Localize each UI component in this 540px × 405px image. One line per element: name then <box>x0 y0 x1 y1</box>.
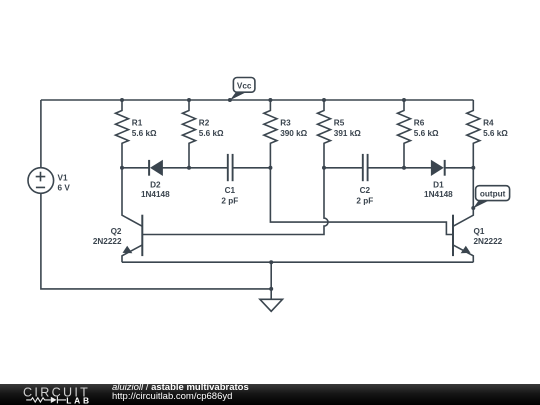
label Q2 2N2222 <box>93 227 122 246</box>
junction node R2 bottom <box>187 166 191 170</box>
label C1 2 pF <box>221 186 238 205</box>
wire R2 node to C1 left plate <box>189 167 228 169</box>
resistor R1 <box>116 100 129 168</box>
svg-text:output: output <box>480 189 506 198</box>
svg-text:R4: R4 <box>483 118 494 127</box>
svg-text:R2: R2 <box>199 118 210 127</box>
svg-text:C2: C2 <box>360 186 371 195</box>
svg-text:R1: R1 <box>132 118 143 127</box>
label R2 5.6 kOhm <box>199 118 224 137</box>
junction node R6 top <box>402 98 406 102</box>
footer credit text <box>112 384 249 402</box>
junction node R1 bottom / D2 / Q2 collector <box>120 166 124 170</box>
svg-text:5.6 kΩ: 5.6 kΩ <box>132 129 157 138</box>
wire R5 node to C2 left plate <box>324 167 363 169</box>
net flag Vcc <box>228 78 255 103</box>
CircuitLab logo <box>0 384 100 405</box>
svg-text:5.6 kΩ: 5.6 kΩ <box>199 129 224 138</box>
wire V1 bottom lead to ground node <box>41 193 271 289</box>
resistor R4 <box>467 100 480 168</box>
label R1 5.6 kOhm <box>132 118 157 137</box>
label R3 390 kOhm <box>280 118 307 137</box>
junction node R4 bottom / D1 / Q1 collector <box>471 166 475 170</box>
svg-text:6 V: 6 V <box>58 184 71 193</box>
svg-text:2N2222: 2N2222 <box>474 237 503 246</box>
svg-text:Q1: Q1 <box>474 227 485 236</box>
diode D2 <box>149 160 162 176</box>
wire R5 node down with hop over crossing then across to Q2 base <box>142 168 328 235</box>
svg-text:Q2: Q2 <box>111 227 122 236</box>
transistor Q1 <box>453 168 473 262</box>
net flag output <box>471 186 509 210</box>
resistor R2 <box>183 100 196 168</box>
junction node V1 return to ground <box>269 287 273 291</box>
wire emitter rail <box>122 261 473 263</box>
junction node R2 top <box>187 98 191 102</box>
label R4 5.6 kOhm <box>483 118 508 137</box>
svg-text:390 kΩ: 390 kΩ <box>280 129 307 138</box>
voltage source V1 <box>28 168 54 194</box>
svg-text:D1: D1 <box>433 181 444 190</box>
wire C1 right plate to R3 node <box>233 167 271 169</box>
junction node R6 bottom <box>402 166 406 170</box>
label R5 391 kOhm <box>334 118 361 137</box>
wire R3 node down and across to Q1 base (crosses R5 wire with hop) <box>270 168 453 235</box>
capacitor C1 <box>228 154 233 181</box>
resistor R3 <box>264 100 277 168</box>
svg-text:R6: R6 <box>414 118 425 127</box>
label R6 5.6 kOhm <box>414 118 439 137</box>
footer bar <box>0 384 540 405</box>
wire top rail Vcc net <box>41 99 473 101</box>
junction node R1 top <box>120 98 124 102</box>
label Q1 2N2222 <box>474 227 503 246</box>
svg-text:2 pF: 2 pF <box>356 196 373 205</box>
wire row2 left: node to D2 cathode <box>122 167 149 169</box>
resistor R6 <box>398 100 411 168</box>
diode D1 <box>431 160 444 176</box>
svg-text:1N4148: 1N4148 <box>141 190 170 199</box>
resistor R5 <box>318 100 331 168</box>
svg-text:LAB: LAB <box>66 395 92 405</box>
label D2 1N4148 <box>141 181 170 199</box>
label C2 2 pF <box>356 186 373 205</box>
svg-text:1N4148: 1N4148 <box>424 190 453 199</box>
svg-text:2N2222: 2N2222 <box>93 237 122 246</box>
junction node R5 top <box>322 98 326 102</box>
svg-text:V1: V1 <box>58 174 68 183</box>
label D1 1N4148 <box>424 181 453 199</box>
junction node R3 top <box>268 98 272 102</box>
junction node R3 bottom <box>268 166 272 170</box>
svg-text:R5: R5 <box>334 118 345 127</box>
junction node R5 bottom <box>322 166 326 170</box>
svg-text:391 kΩ: 391 kΩ <box>334 129 361 138</box>
ground symbol <box>260 299 283 311</box>
svg-text:R3: R3 <box>280 118 291 127</box>
label V1 6 V <box>58 174 71 193</box>
transistor Q2 <box>122 168 142 262</box>
svg-text:C1: C1 <box>225 186 236 195</box>
wire D1 cathode to R4 node <box>445 167 474 169</box>
wire D2 anode to R2 node <box>162 167 189 169</box>
capacitor C2 <box>363 154 368 181</box>
wire ground stem <box>270 262 272 299</box>
wire R6 node to D1 anode <box>404 167 431 169</box>
svg-text:Vcc: Vcc <box>237 81 252 90</box>
svg-text:2 pF: 2 pF <box>221 196 238 205</box>
junction node emitter rail to ground <box>269 260 273 264</box>
svg-text:5.6 kΩ: 5.6 kΩ <box>483 129 508 138</box>
svg-text:D2: D2 <box>150 181 161 190</box>
wire C2 right plate to R6 node <box>368 167 404 169</box>
svg-text:5.6 kΩ: 5.6 kΩ <box>414 129 439 138</box>
wire V1 top lead <box>40 100 42 168</box>
